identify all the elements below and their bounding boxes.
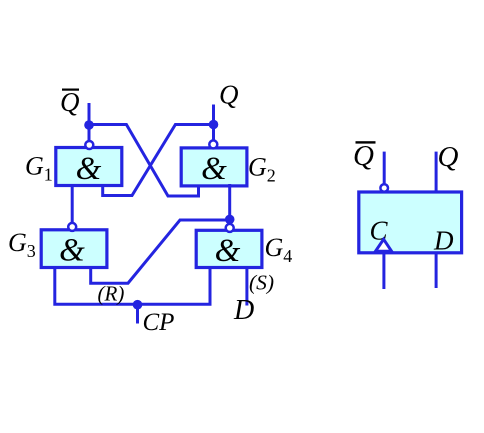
svg-text:G4: G4	[265, 233, 293, 266]
wire FF Q lead	[435, 152, 438, 192]
svg-text:(S): (S)	[249, 271, 274, 295]
bubble on G2 output	[209, 140, 217, 148]
wire D input lead	[245, 268, 248, 306]
svg-text:Q: Q	[219, 80, 239, 110]
flip-flop symbol body	[359, 192, 462, 253]
bubble FF Q-bar	[380, 184, 388, 192]
overbar FF Q-bar	[356, 141, 376, 143]
wire FF D input	[435, 254, 438, 288]
overbar of Q-bar terminal	[62, 89, 79, 91]
svg-text:&: &	[201, 151, 227, 187]
wire FF clock input	[382, 254, 385, 289]
clock edge triangle	[376, 239, 392, 251]
node junction on Q wire	[209, 120, 219, 130]
svg-text:Q: Q	[353, 140, 374, 172]
wire CP stub	[136, 305, 139, 324]
wire cross-couple from Q-bar node to G2 lower input	[89, 125, 199, 197]
svg-text:G1: G1	[25, 152, 53, 185]
svg-text:D: D	[233, 295, 254, 326]
wire G3 lower-right lead diagonal up to G4 node (R feedback)	[91, 220, 230, 283]
wire Q terminal vertical	[212, 105, 215, 142]
svg-text:Q: Q	[438, 141, 459, 173]
svg-text:G3: G3	[8, 228, 36, 261]
NAND gate G3 body	[41, 230, 107, 268]
svg-text:Q: Q	[60, 87, 80, 117]
svg-text:(R): (R)	[98, 282, 125, 306]
wire Q-bar terminal vertical	[88, 103, 91, 142]
wire node to G4 bubble	[228, 219, 231, 224]
node junction above G4	[225, 215, 235, 225]
NAND gate G4 body	[196, 230, 262, 267]
svg-text:G2: G2	[248, 153, 276, 186]
bubble on G1 output	[85, 141, 93, 149]
svg-text:D: D	[433, 226, 454, 256]
NAND gate G1 body	[56, 148, 122, 186]
node junction CP	[133, 300, 143, 310]
wire CP rail: G3 left lead down, across, up to G4 left input	[55, 268, 210, 305]
svg-text:CP: CP	[143, 309, 175, 336]
wire FF Q-bar lead	[383, 152, 386, 184]
bubble on G4 output	[226, 224, 234, 232]
bubble on G3 output	[68, 223, 76, 231]
wire G2 right lead down to G4 input node	[228, 184, 231, 218]
node junction on Q-bar wire	[84, 120, 94, 130]
svg-text:&: &	[76, 151, 102, 187]
svg-text:&: &	[215, 233, 241, 269]
svg-text:&: &	[59, 233, 85, 269]
wire cross-couple from Q node to G1 lower input	[103, 125, 214, 196]
wire G1 left input lead down to G3	[71, 186, 74, 223]
NAND gate G2 body	[181, 148, 247, 186]
